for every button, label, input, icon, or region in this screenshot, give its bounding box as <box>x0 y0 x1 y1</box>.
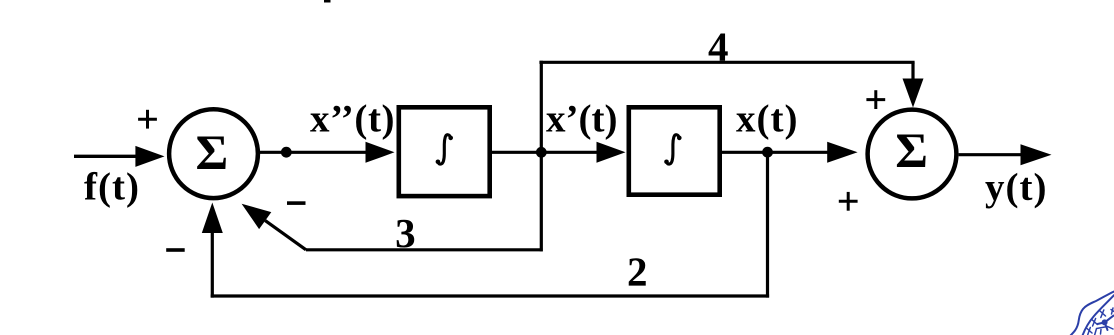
svg-text:2: 2 <box>627 249 648 295</box>
svg-text:3: 3 <box>395 210 416 256</box>
svg-text:Σ: Σ <box>196 124 229 180</box>
svg-text:y(t): y(t) <box>985 166 1047 209</box>
svg-text:4: 4 <box>708 24 729 70</box>
svg-text:x’’(t): x’’(t) <box>310 98 395 141</box>
svg-text:x’(t): x’(t) <box>546 98 617 141</box>
svg-text:f(t): f(t) <box>84 166 140 209</box>
svg-text:x(t): x(t) <box>736 98 798 141</box>
svg-text:Σ: Σ <box>895 122 928 178</box>
